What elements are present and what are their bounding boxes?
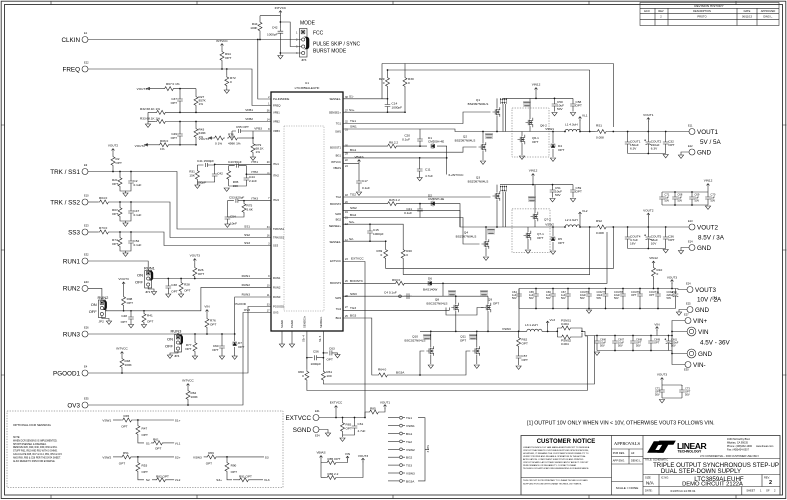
resistor R45 OPT [121,418,133,422]
wire PGOOD1 [88,307,271,374]
capacitor C37 OPT [179,89,181,96]
svg-text:S1+: S1+ [175,418,181,422]
svg-text:R41: R41 [147,314,153,318]
resistor R39 0 [384,248,388,260]
resistor R64 0 (BG3A) [377,373,389,377]
resistor RS2 0.008 sense [596,225,608,229]
svg-text:C43 56pF: C43 56pF [228,160,242,164]
svg-text:RS2: RS2 [596,219,602,223]
svg-text:E32: E32 [84,253,89,257]
svg-text:OPT: OPT [127,301,133,305]
svg-text:C17: C17 [362,179,368,183]
svg-text:VSW3: VSW3 [406,472,415,476]
svg-text:OF: OF [766,489,770,493]
power INTVCC above C42 [279,11,282,15]
wire INTVCC rail to R44 top [260,15,280,22]
capacitor C15 1000pF [369,224,371,228]
resistor R26 OPT [194,263,196,266]
svg-text:50V: 50V [671,344,676,348]
diode D5 OPT [552,227,554,236]
svg-text:C54: C54 [230,215,236,219]
wire BG3A to Q10/Q11 gates [420,351,470,375]
node TG1 stub [388,417,399,419]
dotted optional box ch1 [512,108,549,157]
svg-text:OPT: OPT [576,190,582,194]
svg-text:OPT: OPT [142,470,148,474]
svg-text:CUSTOMER NOTICE: CUSTOMER NOTICE [537,439,596,445]
svg-text:TG3: TG3 [406,464,412,468]
resistor R91 OPT [233,479,238,481]
svg-text:ON: ON [167,337,173,342]
svg-text:VIN: VIN [345,452,350,456]
wire VBIAS pin [343,164,359,178]
svg-text:Q9: Q9 [488,298,492,302]
svg-text:50V: 50V [665,199,670,203]
svg-text:L1 4.3uH: L1 4.3uH [565,123,578,127]
ground under C50 [552,113,557,116]
svg-text:C53 820pF: C53 820pF [229,195,244,199]
svg-text:6.3V: 6.3V [651,147,658,151]
svg-text:VL2: VL2 [582,209,588,213]
wire VSW3 rail [420,330,527,332]
svg-text:E27: E27 [684,313,689,317]
resistor R65 OPT [342,418,344,422]
svg-text:E25: E25 [686,302,691,306]
wire S3- down from U1 [322,331,324,370]
svg-text:SHORT RSENSE1 & RSENSE2.: SHORT RSENSE1 & RSENSE2. [13,444,47,446]
svg-text:E14: E14 [688,240,693,244]
svg-text:0: 0 [380,253,382,257]
svg-text:VSW1: VSW1 [102,418,111,422]
svg-text:VOUT1: VOUT1 [643,113,654,117]
svg-text:REV: REV [658,9,664,13]
svg-text:VFB1: VFB1 [245,108,253,112]
svg-text:HOWEVER, IT REMAINS THE CUSTOM: HOWEVER, IT REMAINS THE CUSTOMER'S RESPO… [523,452,589,455]
resistor R62 100K [187,388,189,389]
svg-text:SENSE2+: SENSE2+ [329,224,342,228]
capacitor C11 4.7uF [419,158,421,166]
svg-text:BG2: BG2 [406,456,412,460]
svg-text:GND: GND [697,150,711,157]
svg-text:PCB DES.: PCB DES. [613,451,625,455]
power VOUT3 arrow [362,458,365,462]
svg-text:VIN: VIN [698,329,709,336]
svg-text:ITH2: ITH2 [251,170,258,174]
capacitor C71 1uF 50V [661,192,663,194]
svg-text:OPT: OPT [184,289,190,293]
svg-text:ITH3: ITH3 [273,198,279,202]
svg-text:VOUT3: VOUT3 [118,277,129,281]
svg-text:2: 2 [769,480,772,486]
capacitor C38 OPT [167,279,169,284]
svg-text:TRK / SS2: TRK / SS2 [50,199,80,206]
svg-text:SS3: SS3 [273,244,279,248]
svg-text:VFB1: VFB1 [273,111,280,115]
capacitor C21 0.1uF boost cap ch2 [419,203,421,205]
svg-text:R8 2.2: R8 2.2 [389,141,398,145]
ground COUT rail ch2 [663,250,668,253]
svg-text:PGOOD1: PGOOD1 [53,370,80,377]
svg-text:50V: 50V [678,199,683,203]
resistor R2 OPT [112,153,114,155]
svg-text:50V: 50V [561,296,566,300]
svg-text:RUN2: RUN2 [63,286,81,293]
svg-text:C61: C61 [358,422,364,426]
svg-text:ITH1: ITH1 [251,160,258,164]
svg-text:SS3: SS3 [68,229,80,236]
resistor R72 0 below FREQ wire [226,68,228,70]
svg-text:DESCRIPTION: DESCRIPTION [693,9,711,13]
resistor R60 0 on S3+ [305,370,309,382]
transistor Q7-2 OPT ch2 [531,212,538,222]
capacitor C73 OPT 50V [681,385,683,387]
U1 right pin names [329,97,342,320]
svg-text:VOUT3: VOUT3 [190,254,201,258]
svg-text:100K: 100K [250,26,258,30]
svg-text:N/A: N/A [646,481,655,486]
wire VOUT3 top rail [519,289,687,290]
ground under C51 [550,199,555,202]
svg-text:BOOST3: BOOST3 [350,279,363,283]
U1 right pin numbers [345,96,348,318]
jumper JP1 RUN1 [135,266,156,295]
power VOUT2 tap [647,217,649,228]
svg-text:E1: E1 [84,31,88,35]
capacitor C42 100pF [212,171,218,179]
capacitor C67 1uF 50V [567,289,569,292]
svg-text:GND: GND [697,245,711,252]
wire COUT bottom rail ch2 [628,248,666,250]
capacitor COUT2 220uF 6.3V [647,132,649,140]
svg-text:VOUT1: VOUT1 [137,87,148,91]
ground under C72 [659,400,664,403]
svg-text:VIN12: VIN12 [532,83,541,87]
svg-text:VOUT3: VOUT3 [358,454,369,458]
terminal E22 FREQ [63,61,90,74]
svg-text:50V: 50V [618,344,623,348]
resistor R27 957K 1% [195,89,197,95]
svg-text:VIN: VIN [654,323,659,327]
svg-text:0.1uF: 0.1uF [404,211,412,215]
svg-text:VSW2: VSW2 [406,448,415,452]
svg-text:SW3: SW3 [350,292,357,296]
power VOUT1 tap [647,121,649,132]
svg-text:SS1: SS1 [244,225,250,229]
resistor R77 OPT [194,334,196,341]
capacitor CIN6 10uF 50V [596,336,598,339]
svg-text:BG3A: BG3A [396,371,405,375]
svg-text:0: 0 [302,374,304,378]
svg-text:OPT: OPT [346,427,352,431]
ground after C63 [335,355,340,358]
svg-text:0.1uF: 0.1uF [362,186,370,190]
capacitor C69 1uF 50V [691,192,693,194]
diode D1 CMDSH-4E [431,143,435,149]
svg-text:OPT: OPT [225,56,231,60]
resistor R85 OPT (VBIAS-VIN) [326,461,338,465]
resistor R21 OPT [119,172,121,177]
svg-text:GND: GND [695,307,709,314]
capacitor C65 1uF 50V [535,289,537,292]
svg-text:50V: 50V [655,393,660,397]
svg-text:10V / 2A: 10V / 2A [697,297,722,304]
svg-text:VOUT3: VOUT3 [695,287,716,294]
svg-text:E4: E4 [84,365,88,369]
ground CIN rail [594,352,599,355]
node BG2 stub [388,456,399,458]
svg-text:R73 0: R73 0 [99,226,108,230]
svg-text:VSW2: VSW2 [545,223,554,227]
svg-text:C42: C42 [272,26,278,30]
svg-text:OPT: OPT [558,241,564,245]
svg-text:OPT: OPT [198,272,204,276]
svg-text:OPT: OPT [522,358,528,362]
svg-text:0.1uF: 0.1uF [134,213,142,217]
svg-text:VERIFY PROPER AND RELIABLE OPE: VERIFY PROPER AND RELIABLE OPERATION IN … [523,455,586,458]
capacitor C52 0.1uF [130,232,132,238]
svg-text:VOUT1: VOUT1 [380,401,391,405]
resistor RS1 0.008 sense [596,130,608,134]
transistor Q9 OPT boost FET [484,303,491,313]
terminal E33 RUN2 [82,285,88,291]
capacitor COUT4 4.7uF 16V [627,227,629,234]
resistor PSNS2 0.004 [560,335,572,339]
svg-text:PGND: PGND [290,320,294,328]
svg-text:2.2nF: 2.2nF [249,179,257,183]
svg-text:VSW3: VSW3 [193,455,202,459]
svg-text:CLKIN: CLKIN [61,37,80,44]
capacitor C72 OPT 50V [661,385,663,387]
svg-text:ITH3: ITH3 [251,196,258,200]
resistor R70 0 1% [213,136,225,140]
svg-text:VL3: VL3 [264,478,270,482]
jumper JP4 RUN3 [165,329,183,359]
svg-text:OPT: OPT [532,140,538,144]
wire S2+ from U1 [343,224,403,248]
svg-text:RUN2: RUN2 [273,286,281,290]
node junction on FREQ wire [221,68,223,70]
svg-text:MODE: MODE [300,21,316,27]
svg-text:R76: R76 [228,133,234,137]
svg-text:VBIAS: VBIAS [316,451,325,455]
ground VOUT3 rail [586,310,591,313]
capacitor C70 1uF 50V [707,192,709,194]
wire VIN12 drain rail [503,97,573,99]
svg-text:R45: R45 [124,414,130,418]
svg-text:OPT: OPT [171,101,177,105]
capacitor CIN9 OPT [650,336,652,339]
node VSW3 stub [388,472,399,474]
svg-text:SW3: SW3 [335,296,341,300]
capacitor COUT1 150uF 6.3V [627,132,629,140]
terminal E11 VOUT1 [689,129,695,135]
svg-text:AND R69, R90 & C56 PER THE DAT: AND R69, R90 & C56 PER THE DATA SHEET. [13,456,61,459]
terminal E31 EXTVCC [313,415,319,421]
svg-text:0: 0 [230,80,232,84]
svg-text:OPT: OPT [185,347,191,351]
svg-text:VL3: VL3 [550,318,556,322]
resistor R94 OPT [221,48,223,50]
node VSW1 stub [388,425,399,427]
svg-text:APPROVED: APPROVED [761,9,776,13]
svg-text:C55 OPT: C55 OPT [236,125,249,129]
svg-text:OPT: OPT [121,425,127,429]
svg-text:OPT: OPT [631,293,637,297]
svg-text:REMOVE R26, R29, R40, R39, R60: REMOVE R26, R29, R40, R39, R60 & R61. [13,447,58,449]
svg-text:VSW1: VSW1 [406,424,415,428]
svg-text:SS2: SS2 [244,233,250,237]
svg-text:BG2: BG2 [336,218,342,222]
resistor R27b OPT [119,202,121,206]
terminal VIN (large) [687,327,696,336]
capacitor C48 OPT [130,311,132,314]
svg-text:LTC3859ALEUHF: LTC3859ALEUHF [295,86,320,90]
svg-text:E26: E26 [84,326,89,330]
svg-text:www.linear.com: www.linear.com [756,445,773,448]
svg-text:6+INTVCC: 6+INTVCC [449,173,465,177]
resistor R8 2.2 BOOST1 [343,145,386,147]
svg-text:TG2: TG2 [336,195,342,199]
diode D7 OPT [234,334,236,341]
svg-text:BSC027N04LS: BSC027N04LS [427,302,448,306]
svg-text:OPT: OPT [171,290,177,294]
svg-text:15K: 15K [189,174,195,178]
svg-text:6.3V: 6.3V [630,147,637,151]
resistor R85 to VOUT1 [365,412,368,418]
svg-text:BOOST3: BOOST3 [330,281,341,285]
resistor R69 OPT [206,455,218,459]
resistor R51 OPT [121,455,133,459]
svg-text:PGOOD: PGOOD [234,302,246,306]
svg-text:FCC: FCC [313,31,324,37]
svg-text:INTVCC: INTVCC [331,160,341,164]
capacitor C63 OPT to ground [323,350,337,355]
ground under JP1 [151,292,156,295]
svg-text:SGND: SGND [280,320,284,328]
svg-text:NOTE:: NOTE: [13,437,20,439]
svg-text:SHEET: SHEET [746,489,755,493]
svg-text:DING L.: DING L. [763,15,773,19]
svg-text:OV3: OV3 [244,308,250,312]
svg-text:R91 OPT: R91 OPT [239,474,252,478]
wire TG3 to Q8/Q9 gates [343,308,449,311]
resistor R67 0 1% [151,88,163,90]
svg-text:R25 2.2: R25 2.2 [389,198,400,202]
ground under C2 [123,193,128,196]
terminal GND (large) [687,349,696,358]
frame zone tick marks top [51,1,736,4]
resistor R86 2.2 (VBIAS-VOUT3) [321,477,326,479]
svg-text:L3 1.2uH: L3 1.2uH [525,323,538,327]
svg-text:DEMO CIRCUIT 2122A: DEMO CIRCUIT 2122A [682,482,743,488]
svg-text:[1]: [1] [713,295,717,300]
svg-text:S3- 5: S3- 5 [318,335,322,342]
svg-text:BG1: BG1 [406,432,412,436]
capacitor COUT5 68uF 10V [647,227,649,234]
svg-text:OPT: OPT [155,447,161,451]
svg-text:R61: R61 [153,438,159,442]
svg-text:VOUT3: VOUT3 [667,276,678,280]
svg-text:RUN2: RUN2 [98,295,110,300]
svg-text:TG2: TG2 [350,193,356,197]
svg-text:E31: E31 [315,409,320,413]
capacitor C61 4.7uF [354,418,356,424]
svg-text:BSZ097N04LS: BSZ097N04LS [455,139,476,143]
svg-text:R28: R28 [184,283,190,287]
svg-text:OFF: OFF [165,344,174,349]
ground under R79 [250,157,255,160]
svg-text:DENG L.: DENG L. [631,459,642,463]
resistor R04 0 [88,201,98,203]
resistor R25 2.2 BOOST2 [343,203,386,205]
ground under JP3 [278,56,283,59]
svg-text:JP1: JP1 [145,290,151,294]
inductor L3 1.2uH [527,329,542,331]
terminal E26 RUN3 [82,331,88,337]
resistor R48 100K [121,356,123,357]
svg-text:JP4: JP4 [174,354,180,358]
wire EXTVCC from U1 pin down [343,262,365,418]
svg-text:CIRCUIT BOARD LAYOUT MAY SIGNI: CIRCUIT BOARD LAYOUT MAY SIGNIFICANTLY A… [523,461,589,464]
resistor R43 649K 1% [195,122,197,128]
svg-text:RUN1: RUN1 [63,258,81,265]
svg-text:INTVCC: INTVCC [116,347,128,351]
svg-text:OPT: OPT [210,323,216,327]
capacitor COUT6 10uF 50V [588,289,590,292]
svg-text:10nF: 10nF [230,222,237,226]
svg-text:BG3: BG3 [336,316,342,320]
resistor R79 68.1K 1% [252,138,254,142]
wire CIN top rail [596,335,598,337]
capacitor C42 1000pF [279,22,281,28]
capacitor COUT7 10uF 50V [605,289,607,292]
svg-text:ON: ON [91,302,97,307]
ground under JP2 [106,321,111,324]
svg-text:TG1: TG1 [336,122,342,126]
ground under C54 [225,224,230,227]
transistor Q10 BSC027N04LS boost sync FET [426,346,433,356]
svg-text:TECHNOLOGY APPLICATIONS ENGINE: TECHNOLOGY APPLICATIONS ENGINEERING FOR … [523,467,589,470]
svg-text:SENSE2-: SENSE2- [329,240,341,244]
svg-text:0.004: 0.004 [561,322,569,326]
svg-text:PLLIN/MODE: PLLIN/MODE [273,97,289,101]
svg-text:BOOST1: BOOST1 [330,146,341,150]
svg-text:[1] OUTPUT 10V ONLY WHEN VIN: [1] OUTPUT 10V ONLY WHEN VIN < 10V, OTHE… [527,421,715,427]
capacitor C50 10uF 50V [554,98,556,101]
wire OV3 [88,313,271,406]
svg-text:C41 1500pF: C41 1500pF [197,159,214,163]
wire ladder cluster Q1 [500,98,507,104]
svg-text:C42: C42 [217,172,223,176]
svg-text:SIZE: SIZE [645,476,651,480]
node BG3A stub [388,480,399,482]
sense rail ch2 lower [403,227,590,275]
capacitor C59 OPT [572,185,574,187]
svg-text:VFB2: VFB2 [273,120,280,124]
wire TG3 branch to Q9 gate [446,308,484,316]
terminal E30 VIN- [685,362,691,368]
svg-text:JP2: JP2 [99,320,105,324]
svg-text:DATE: DATE [744,9,751,13]
wire C72/C73 bottom rail [662,397,682,399]
svg-text:VIN12: VIN12 [704,179,713,183]
svg-text:R69: R69 [208,451,214,455]
svg-text:SUPPLIED FOR USE WITH LINEAR T: SUPPLIED FOR USE WITH LINEAR TECHNOLOGY … [523,483,582,486]
U1 left pin numbers [267,96,270,313]
capacitor C32 OPT [665,132,667,140]
svg-text:THIS CIRCUIT IS PROPRIETARY TO: THIS CIRCUIT IS PROPRIETARY TO LINEAR TE… [523,479,588,482]
svg-text:SCALE = NONE: SCALE = NONE [616,486,639,490]
